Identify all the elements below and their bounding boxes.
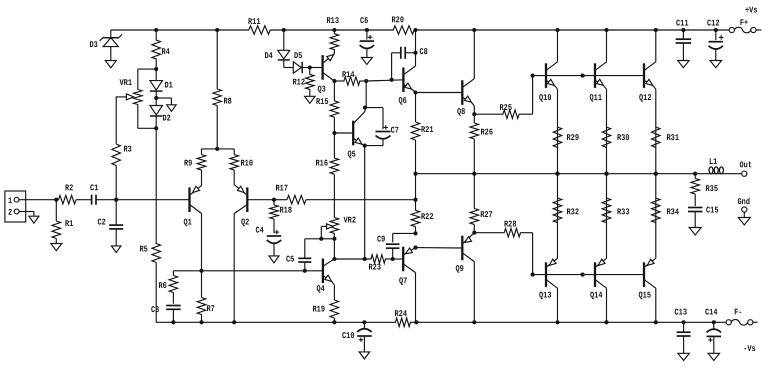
wire L1 to Out terminal bbox=[727, 173, 742, 175]
node Q8 base tap bbox=[413, 90, 417, 94]
capacitor C5 bbox=[286, 255, 311, 265]
transistor Q13 bbox=[539, 174, 558, 323]
terminal Out bbox=[739, 160, 752, 176]
node Q2 collector bottom rail bbox=[232, 320, 236, 324]
node C6 rail bbox=[365, 28, 369, 32]
node Q8 emitter / R25 bbox=[472, 112, 476, 116]
resistor R24 bbox=[394, 309, 416, 327]
node feedback divider bbox=[272, 198, 276, 202]
svg-text:R27: R27 bbox=[480, 210, 493, 220]
node R24 right rail bbox=[414, 320, 418, 324]
wire +V rail right section bbox=[416, 29, 730, 31]
resistor R8 bbox=[213, 30, 232, 149]
node Q6 collector rail bbox=[413, 28, 417, 32]
resistor R33 bbox=[602, 198, 629, 223]
resistor R34 bbox=[652, 198, 680, 223]
node C5 bottom bbox=[303, 269, 307, 273]
diode D2 bbox=[150, 98, 171, 128]
node C13 rail bbox=[682, 320, 686, 324]
node input node A bbox=[114, 198, 118, 202]
wire Q9 base line bbox=[416, 247, 463, 249]
wire C9 bottom bbox=[392, 248, 394, 259]
svg-text:R20: R20 bbox=[391, 15, 404, 25]
node D4 top rail bbox=[282, 28, 286, 32]
node R19 bottom rail bbox=[332, 320, 336, 324]
svg-text:F+: F+ bbox=[740, 18, 748, 28]
resistor R27 bbox=[470, 174, 493, 233]
wire VAS column upper bbox=[365, 81, 367, 108]
node R35 output rail bbox=[693, 172, 697, 176]
svg-text:1: 1 bbox=[8, 196, 12, 206]
node C9 bottom on Q7 base line bbox=[391, 257, 395, 261]
node R8 bottom / emitter split bbox=[215, 147, 219, 151]
ground below C2 bbox=[111, 246, 121, 253]
resistor R9 bbox=[184, 149, 206, 186]
potentiometer VR1 bbox=[119, 78, 142, 128]
resistor R31 bbox=[652, 127, 679, 148]
resistor R2 bbox=[56, 183, 88, 204]
transistor Q6 bbox=[398, 53, 415, 106]
svg-text:R19: R19 bbox=[312, 305, 325, 315]
resistor R13 bbox=[326, 16, 339, 53]
svg-text:R3: R3 bbox=[123, 145, 131, 155]
node Q13 collector rail bbox=[555, 320, 559, 324]
capacitor C7 electrolytic bbox=[376, 125, 399, 145]
svg-text:R35: R35 bbox=[705, 184, 718, 194]
svg-text:Q7: Q7 bbox=[399, 276, 407, 286]
resistor R3 bbox=[112, 144, 132, 200]
wire VR1 bottom tie bbox=[138, 127, 156, 129]
svg-text:F-: F- bbox=[734, 308, 742, 318]
transistor Q9 bbox=[455, 233, 474, 323]
wire D5 node to Q3 base bbox=[310, 67, 323, 69]
svg-text:R29: R29 bbox=[566, 133, 579, 143]
svg-text:C11: C11 bbox=[676, 19, 689, 29]
node Q9 collector rail bbox=[472, 320, 476, 324]
wire C5 bottom bbox=[304, 262, 306, 271]
wire C9 top branch bbox=[393, 232, 416, 234]
node R34 top output rail bbox=[654, 172, 658, 176]
resistor R17 bbox=[274, 184, 311, 204]
svg-text:R23: R23 bbox=[368, 263, 381, 273]
svg-text:D5: D5 bbox=[294, 51, 302, 61]
wire -V bottom rail right section bbox=[416, 321, 726, 323]
terminal Gnd bbox=[737, 197, 750, 218]
capacitor C15 bbox=[688, 206, 719, 228]
svg-text:C2: C2 bbox=[97, 218, 105, 228]
svg-text:VR2: VR2 bbox=[343, 216, 356, 226]
svg-text:R24: R24 bbox=[394, 309, 407, 319]
resistor R30 bbox=[602, 127, 629, 148]
wire R23 line bbox=[334, 258, 370, 260]
node C3 bottom rail bbox=[171, 320, 175, 324]
svg-text:Q8: Q8 bbox=[457, 107, 465, 117]
fuse F- bbox=[726, 308, 757, 326]
svg-text:R7: R7 bbox=[206, 304, 214, 314]
resistor R7 bbox=[197, 271, 215, 323]
svg-text:Q11: Q11 bbox=[589, 93, 602, 103]
capacitor C13 bbox=[674, 308, 690, 354]
node R15/R16 Q5 base bbox=[332, 131, 336, 135]
wire wiper tie bbox=[321, 238, 334, 240]
wiper arrow VR2 bbox=[321, 224, 333, 239]
wire VR1 wiper to R3 bbox=[115, 96, 117, 98]
resistor R19 bbox=[312, 285, 338, 322]
node PNP base line corner bbox=[531, 273, 535, 277]
node D1/D2 bbox=[154, 96, 158, 100]
wire output rail bbox=[416, 173, 707, 175]
node R13 top rail bbox=[332, 28, 336, 32]
resistor R32 bbox=[553, 198, 579, 223]
resistor R23 bbox=[368, 255, 391, 273]
transistor Q15 bbox=[638, 174, 655, 323]
wire -V bottom rail left section bbox=[156, 321, 395, 323]
wire R28 down to PNP base line bbox=[532, 233, 534, 275]
wire C7 bottom to Q5 emitter bbox=[365, 145, 383, 147]
transistor Q10 bbox=[539, 30, 558, 174]
ground below C6 bbox=[361, 58, 372, 65]
svg-text:C1: C1 bbox=[90, 183, 98, 193]
wire R23 to Q7 base bbox=[391, 258, 403, 260]
resistor R5 bbox=[139, 244, 160, 323]
resistor R1 bbox=[52, 200, 73, 244]
wire VAS column lower (crosses feedback line) bbox=[364, 146, 366, 259]
svg-text:R5: R5 bbox=[139, 245, 147, 255]
node input/R1 bbox=[54, 198, 58, 202]
svg-text:+Vs: +Vs bbox=[745, 6, 758, 16]
node NPN base line corner bbox=[531, 74, 535, 78]
node R30 bottom output rail bbox=[604, 172, 608, 176]
input connector bbox=[5, 191, 26, 222]
node D2/VR1 bottom bbox=[154, 126, 158, 130]
wire C5 top branch bbox=[305, 238, 322, 240]
svg-text:D4: D4 bbox=[264, 51, 273, 61]
svg-text:Q15: Q15 bbox=[638, 291, 651, 301]
svg-text:R30: R30 bbox=[617, 133, 630, 143]
svg-text:R33: R33 bbox=[617, 207, 630, 217]
node VR2 bottom tie bbox=[332, 237, 336, 241]
node R33 top output rail bbox=[604, 172, 608, 176]
resistor R22 bbox=[411, 200, 433, 234]
node Q3 collector / R14 / R15 bbox=[332, 79, 336, 83]
svg-text:R26: R26 bbox=[480, 128, 493, 138]
wire input node to Q1 base bbox=[116, 199, 189, 201]
fuse F+ bbox=[729, 18, 761, 33]
resistor R25 bbox=[474, 103, 532, 118]
node output rail left end bbox=[413, 172, 417, 176]
junction dot PNP base line bbox=[581, 273, 585, 277]
svg-text:C13: C13 bbox=[674, 308, 687, 318]
ground below R1 bbox=[51, 244, 62, 251]
svg-text:R6: R6 bbox=[158, 281, 166, 291]
svg-text:R1: R1 bbox=[65, 219, 73, 229]
transistor Q14 bbox=[590, 174, 607, 323]
svg-text:C4: C4 bbox=[255, 226, 264, 236]
transistor Q12 bbox=[639, 30, 656, 174]
transistor Q4 bbox=[316, 259, 334, 295]
svg-text:Q3: Q3 bbox=[317, 85, 325, 95]
transistor Q8 bbox=[457, 30, 474, 117]
node Q12 collector rail bbox=[654, 28, 658, 32]
svg-text:C7: C7 bbox=[391, 126, 399, 136]
node Q5 emitter bbox=[363, 144, 367, 148]
resistor R18 bbox=[270, 200, 292, 234]
wire bias column down to R5 bbox=[155, 128, 157, 244]
ground at D1/D2 node bbox=[167, 105, 177, 112]
svg-text:Gnd: Gnd bbox=[737, 197, 750, 207]
resistor R4 bbox=[152, 30, 170, 69]
svg-text:C15: C15 bbox=[706, 206, 719, 216]
wire terminal 1 to R1 node bbox=[19, 199, 56, 201]
svg-text:R28: R28 bbox=[504, 220, 517, 230]
node C12 rail bbox=[714, 28, 718, 32]
svg-text:Out: Out bbox=[739, 160, 752, 170]
ground below C11 bbox=[678, 61, 690, 68]
ground below C14 bbox=[708, 353, 720, 360]
ground at terminal 2 bbox=[29, 216, 39, 223]
svg-text:R21: R21 bbox=[421, 125, 434, 135]
diode D1 bbox=[150, 69, 173, 98]
svg-text:D2: D2 bbox=[162, 114, 170, 124]
transistor Q5 bbox=[347, 108, 365, 160]
resistor R14 bbox=[334, 70, 366, 85]
resistor R35 bbox=[691, 174, 718, 206]
ground below D3 bbox=[105, 61, 116, 68]
wire R25 up to NPN base line bbox=[532, 76, 534, 115]
svg-text:L1: L1 bbox=[709, 157, 717, 167]
node C10 rail bbox=[362, 320, 366, 324]
wire Q2 base to feedback node bbox=[247, 199, 274, 201]
capacitor C14 electrolytic bbox=[705, 308, 721, 354]
wire NPN base line bbox=[533, 75, 644, 77]
svg-text:R34: R34 bbox=[666, 207, 679, 217]
node R31 bottom output rail bbox=[654, 172, 658, 176]
svg-text:-Vs: -Vs bbox=[743, 344, 756, 354]
svg-text:Q13: Q13 bbox=[539, 291, 552, 301]
svg-text:D1: D1 bbox=[164, 81, 172, 91]
node R8 top bbox=[215, 28, 219, 32]
svg-text:R4: R4 bbox=[161, 47, 170, 57]
wire R22 top bbox=[415, 174, 417, 200]
ground below C15 bbox=[689, 228, 701, 236]
node Q8 collector rail bbox=[472, 28, 476, 32]
wire to VR1 top bbox=[138, 68, 156, 70]
svg-text:R10: R10 bbox=[240, 159, 253, 169]
wire terminal 2 to ground bbox=[19, 211, 34, 213]
svg-text:R17: R17 bbox=[275, 184, 288, 194]
junction dot NPN base line bbox=[581, 74, 585, 78]
resistor R10 bbox=[230, 149, 253, 185]
capacitor C11 bbox=[676, 19, 692, 61]
node C8 left on Q6 base line bbox=[390, 78, 394, 82]
diode D5 bbox=[284, 51, 310, 73]
svg-text:R2: R2 bbox=[65, 183, 73, 193]
resistor R20 bbox=[391, 15, 415, 34]
node R14 right / VAS column bbox=[364, 79, 368, 83]
node C9 top bbox=[413, 231, 417, 235]
svg-text:C12: C12 bbox=[707, 19, 720, 29]
inductor L1 bbox=[706, 157, 727, 174]
resistor R6 bbox=[158, 271, 177, 304]
svg-text:2: 2 bbox=[8, 208, 12, 218]
wire Q6 base line bbox=[366, 80, 403, 81]
transistor Q1 bbox=[183, 186, 201, 271]
ground below C4 bbox=[269, 256, 279, 263]
node C14 rail bbox=[712, 320, 716, 324]
resistor R29 bbox=[553, 127, 579, 148]
ground below Gnd terminal bbox=[738, 218, 750, 226]
svg-text:Q4: Q4 bbox=[316, 284, 325, 294]
wire Q8 base line bbox=[416, 92, 463, 94]
svg-text:R8: R8 bbox=[223, 97, 231, 107]
svg-text:R16: R16 bbox=[315, 159, 328, 169]
svg-text:C6: C6 bbox=[360, 16, 368, 26]
svg-text:R32: R32 bbox=[566, 207, 579, 217]
svg-text:R9: R9 bbox=[184, 159, 192, 169]
svg-text:R11: R11 bbox=[248, 17, 261, 27]
svg-text:C10: C10 bbox=[342, 331, 355, 341]
capacitor C9 bbox=[377, 235, 399, 249]
node R29 bottom output rail bbox=[555, 172, 559, 176]
svg-text:Q9: Q9 bbox=[455, 264, 463, 274]
svg-text:R25: R25 bbox=[499, 103, 512, 113]
node VR2 wiper tie left bbox=[319, 237, 323, 241]
wire +V front-end rail mid section bbox=[271, 29, 392, 31]
resistor R21 bbox=[411, 93, 433, 174]
wire emitter split bar bbox=[202, 148, 235, 150]
node Q3 base / R12 bbox=[308, 65, 312, 69]
node R4 top bbox=[154, 28, 158, 32]
node Q4 collector / R23 line bbox=[332, 257, 336, 261]
resistor R28 bbox=[474, 220, 532, 237]
node C8 right bbox=[413, 51, 417, 55]
svg-text:R22: R22 bbox=[421, 212, 434, 222]
capacitor C4 electrolytic bbox=[255, 226, 281, 256]
svg-text:VR1: VR1 bbox=[119, 78, 132, 88]
wire +V front-end rail left section bbox=[111, 29, 249, 31]
svg-text:D3: D3 bbox=[89, 40, 97, 50]
svg-text:C3: C3 bbox=[151, 305, 159, 315]
svg-text:R31: R31 bbox=[666, 133, 679, 143]
ground below C12 bbox=[710, 61, 722, 68]
svg-text:C14: C14 bbox=[705, 308, 718, 318]
wire R16 to VR2 (crosses feedback line) bbox=[333, 180, 335, 215]
svg-text:R12: R12 bbox=[292, 78, 305, 88]
svg-text:C8: C8 bbox=[419, 47, 427, 57]
potentiometer VR2 bbox=[330, 215, 356, 259]
svg-text:Q1: Q1 bbox=[183, 218, 191, 228]
node Q5 collector / C7 top bbox=[363, 106, 367, 110]
capacitor C2 bbox=[97, 200, 123, 246]
node R7 bottom rail bbox=[199, 320, 203, 324]
ground below R12 bbox=[305, 96, 316, 103]
node Q15 collector rail bbox=[654, 320, 658, 324]
transistor Q7 bbox=[399, 247, 416, 323]
ground below C13 bbox=[678, 353, 690, 360]
svg-text:R18: R18 bbox=[279, 206, 292, 216]
wire PNP base line bbox=[533, 274, 644, 276]
node feedback to output column bbox=[413, 198, 417, 202]
wire C7 top bbox=[365, 107, 383, 109]
wiper arrow VR1 bbox=[116, 94, 134, 100]
node VAS to R23 bbox=[363, 257, 367, 261]
svg-text:R13: R13 bbox=[326, 16, 339, 26]
svg-text:Q14: Q14 bbox=[590, 291, 603, 301]
resistor R15 bbox=[316, 81, 339, 133]
node Q10 collector rail bbox=[555, 28, 559, 32]
node R4/D1/VR1 bbox=[154, 67, 158, 71]
resistor R12 bbox=[292, 68, 314, 97]
node R32 top output rail bbox=[555, 172, 559, 176]
resistor R11 bbox=[248, 17, 271, 34]
node Q14 collector rail bbox=[604, 320, 608, 324]
node Q7 emitter / Q9 base bbox=[413, 246, 417, 250]
svg-text:Q10: Q10 bbox=[539, 93, 552, 103]
capacitor C1 bbox=[88, 183, 116, 204]
svg-text:Q2: Q2 bbox=[241, 218, 249, 228]
svg-text:Q6: Q6 bbox=[398, 96, 406, 106]
diode D4 bbox=[264, 30, 289, 68]
node R26 bottom output rail bbox=[472, 172, 476, 176]
wire Q4 base line bbox=[173, 270, 322, 272]
resistor R16 bbox=[315, 133, 338, 180]
node Q1 collector on base line bbox=[199, 269, 203, 273]
transistor Q3 bbox=[317, 53, 334, 94]
zener diode D3 bbox=[89, 30, 122, 61]
capacitor C8 bbox=[392, 47, 428, 80]
svg-text:R14: R14 bbox=[342, 70, 355, 80]
capacitor C3 bbox=[151, 305, 181, 322]
svg-text:R15: R15 bbox=[316, 97, 329, 107]
node Q11 collector rail bbox=[604, 28, 608, 32]
capacitor C10 electrolytic bbox=[342, 322, 372, 352]
node R27 bottom / Q9 emitter bbox=[472, 231, 476, 235]
wire Q6 collector column bbox=[415, 30, 417, 53]
wire Q5 base bbox=[334, 132, 353, 134]
ground below C10 bbox=[359, 352, 370, 359]
node C11 rail bbox=[681, 28, 685, 32]
svg-text:Q5: Q5 bbox=[347, 150, 355, 160]
capacitor C6 electrolytic bbox=[360, 16, 375, 58]
resistor R26 bbox=[470, 114, 493, 174]
svg-text:Q12: Q12 bbox=[639, 93, 652, 103]
wire feedback line to driver node bbox=[311, 199, 416, 201]
svg-text:C9: C9 bbox=[377, 235, 385, 245]
wire D1-D2 node to ground bbox=[156, 97, 171, 99]
svg-text:C5: C5 bbox=[286, 255, 294, 265]
transistor Q2 bbox=[234, 185, 249, 323]
transistor Q11 bbox=[589, 30, 606, 174]
capacitor C12 electrolytic bbox=[707, 19, 723, 61]
